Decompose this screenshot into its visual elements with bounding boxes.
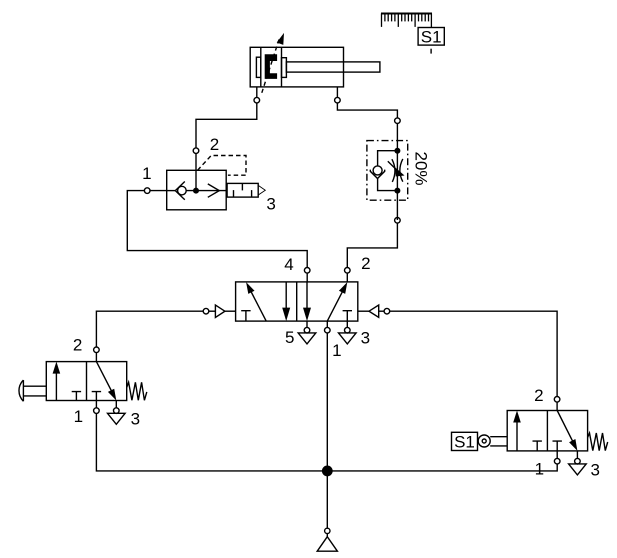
wire flow control to 5/2 valve port 2 xyxy=(345,218,401,282)
flow control valve frame xyxy=(367,141,408,201)
svg-text:2: 2 xyxy=(210,135,219,154)
port 1 node left valve xyxy=(94,401,100,414)
5/2 left pilot xyxy=(203,305,235,317)
svg-text:1: 1 xyxy=(535,459,544,478)
5/2 left position flow 1 to 4 xyxy=(246,282,266,321)
svg-text:S1: S1 xyxy=(421,27,442,46)
3/2 roller rest position flow 2 to 3 xyxy=(557,411,577,451)
svg-text:1: 1 xyxy=(74,407,83,426)
flow control throttle arcs xyxy=(392,159,403,182)
svg-text:4: 4 xyxy=(284,255,293,274)
wire 5/2 port 1 down to supply junction xyxy=(325,321,331,471)
svg-text:5: 5 xyxy=(285,328,294,347)
wire quick exhaust port 1 to 5/2 valve port 4 xyxy=(127,188,310,282)
svg-text:3: 3 xyxy=(361,329,370,348)
silencer xyxy=(227,183,265,197)
supply manifold wire xyxy=(96,413,557,471)
3/2 push button valve body xyxy=(46,362,126,401)
3/2 roller left position port 3 blocked xyxy=(533,441,542,451)
5/2-way valve body xyxy=(236,282,358,321)
wire cylinder right port to flow control valve xyxy=(335,87,401,141)
cylinder cushioning piston xyxy=(265,54,277,79)
5/2 right position port 3 blocked xyxy=(343,311,352,321)
quick exhaust arrow to exhaust xyxy=(208,184,220,197)
roller actuator xyxy=(478,435,507,447)
5/2 exhaust port 3 xyxy=(339,321,357,344)
5/2 exhaust port 5 xyxy=(298,321,316,344)
svg-text:2: 2 xyxy=(534,386,543,405)
flow control adjustment arrow xyxy=(388,161,405,176)
5/2 right position flow 1 to 2 xyxy=(327,282,347,321)
3/2 roller left position flow 1 to 2 xyxy=(513,411,521,451)
return spring right valve xyxy=(588,433,608,451)
3/2 left position port 3 blocked xyxy=(72,392,81,401)
5/2 right position flow 4 to 5 xyxy=(303,282,311,321)
port 1 node right valve xyxy=(554,451,560,464)
5/2 left position port 5 blocked xyxy=(241,311,250,321)
wire 5/2 right pilot to roller valve port 2 xyxy=(390,311,560,410)
3/2 roller rest position port 1 blocked xyxy=(553,441,562,451)
piston rod xyxy=(286,62,380,72)
svg-text:20%: 20% xyxy=(412,151,431,185)
exhaust port 3 right valve xyxy=(569,451,587,475)
3/2 rest position port 1 blocked xyxy=(92,392,101,401)
svg-text:2: 2 xyxy=(73,336,82,355)
svg-text:2: 2 xyxy=(361,254,370,273)
flow control main line with junctions xyxy=(395,141,400,220)
cushioning adjustment arrow xyxy=(262,33,284,93)
flow control check valve branch xyxy=(370,151,397,191)
distance ruler xyxy=(381,14,432,28)
wire cylinder left port to quick exhaust port 2 xyxy=(193,87,259,170)
svg-text:1: 1 xyxy=(142,164,151,183)
supply junction xyxy=(323,466,332,475)
svg-text:3: 3 xyxy=(590,460,599,479)
quick exhaust pilot dashed line xyxy=(198,156,247,176)
quick exhaust valve body xyxy=(167,170,227,210)
5/2 right pilot xyxy=(358,305,390,317)
compressed air source xyxy=(317,471,337,551)
3/2 rest position flow 2 to 3 xyxy=(96,362,116,401)
marker S1 xyxy=(418,27,444,53)
return spring left valve xyxy=(127,382,147,400)
cylinder body xyxy=(250,47,343,87)
svg-text:3: 3 xyxy=(131,410,140,429)
wire 5/2 left pilot to push button valve port 2 xyxy=(94,311,204,361)
quick exhaust internal flow line and junction xyxy=(186,170,226,193)
5/2 left position flow 2 to 3 xyxy=(282,282,290,321)
svg-text:3: 3 xyxy=(266,195,275,214)
3/2 roller valve body xyxy=(507,411,587,451)
svg-text:1: 1 xyxy=(332,341,341,360)
exhaust port 3 left valve xyxy=(108,401,126,425)
limit switch S1 label box xyxy=(452,432,478,451)
quick exhaust check seat and disc xyxy=(167,182,187,200)
svg-text:S1: S1 xyxy=(454,433,475,452)
push button actuator xyxy=(19,380,46,401)
3/2 left position flow 1 to 2 xyxy=(53,362,61,401)
